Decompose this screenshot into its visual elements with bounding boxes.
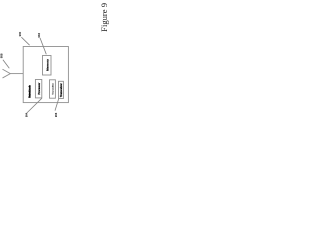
wire leader 900 [21, 37, 29, 45]
network node box [23, 47, 68, 103]
memory box U-mem [43, 56, 52, 76]
wire leader 904 [27, 98, 42, 113]
transceiver box [59, 81, 64, 98]
svg-text:Figure 9: Figure 9 [99, 3, 109, 32]
transmitter box [50, 80, 56, 98]
wire leader 908 [3, 60, 9, 69]
svg-text:Transceiver: Transceiver [60, 83, 63, 97]
svg-text:Transmitter: Transmitter [52, 83, 55, 95]
wire leader 902 [40, 38, 46, 54]
svg-text:906: 906 [54, 112, 58, 117]
svg-text:Memory: Memory [46, 59, 50, 71]
svg-text:908: 908 [0, 53, 4, 58]
svg-text:Network node: Network node [29, 85, 32, 98]
processor box [35, 80, 41, 98]
wire leader 906 [55, 99, 59, 111]
svg-text:904: 904 [25, 112, 29, 117]
svg-text:900: 900 [18, 31, 22, 36]
svg-text:902: 902 [37, 33, 41, 38]
background [0, 0, 112, 120]
svg-text:Processor: Processor [38, 83, 41, 95]
antenna [3, 69, 11, 77]
wire antenna feed line [10, 73, 23, 75]
